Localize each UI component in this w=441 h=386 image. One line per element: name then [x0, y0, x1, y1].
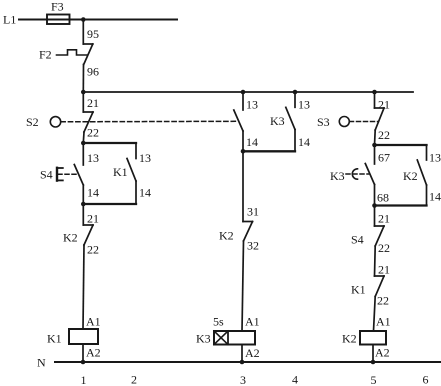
wire: [83, 245, 84, 329]
junction right branch bottom: [372, 203, 377, 208]
svg-text:K1: K1: [47, 332, 62, 346]
F2 actuator linkage: [57, 50, 88, 55]
wire left column top: [82, 20, 84, 45]
svg-text:68: 68: [377, 191, 389, 205]
junction N / K1 coil: [81, 360, 86, 365]
wire: [82, 185, 84, 204]
svg-text:14: 14: [298, 135, 310, 149]
svg-text:K1: K1: [113, 165, 128, 179]
contact S2 NO: [234, 110, 243, 131]
svg-text:S4: S4: [351, 233, 364, 247]
svg-text:A1: A1: [245, 315, 260, 329]
svg-text:F2: F2: [39, 48, 52, 62]
wire: [82, 65, 84, 93]
wire K1 branch right leg top: [135, 143, 137, 159]
wire: [242, 241, 244, 331]
svg-text:K3: K3: [270, 114, 285, 128]
svg-text:K2: K2: [219, 229, 234, 243]
wire: [374, 206, 376, 227]
junction at L1 / left column: [81, 17, 86, 22]
S4 actuator (manual): [40, 168, 78, 182]
contact K1 NO (self hold): [127, 159, 136, 182]
junction parallel branch bottom: [81, 202, 86, 207]
junction N / K3 coil: [240, 360, 245, 365]
svg-text:22: 22: [378, 241, 390, 255]
wire right branch bottom: [375, 204, 427, 206]
svg-text:13: 13: [246, 98, 258, 112]
junction parallel branch top: [81, 141, 86, 146]
svg-text:A2: A2: [245, 346, 260, 360]
contact S2 NC: [83, 112, 93, 132]
svg-text:14: 14: [139, 186, 151, 200]
junction middle branch: [241, 149, 246, 154]
svg-text:22: 22: [87, 243, 99, 257]
wire: [82, 132, 85, 143]
contact K3 NO: [286, 107, 295, 129]
junction top bus / K3 leg: [293, 90, 298, 95]
svg-text:32: 32: [247, 239, 259, 253]
wire: [374, 297, 376, 332]
S3 linkage (dashed): [350, 121, 379, 123]
wire: [242, 131, 244, 151]
wire: [241, 345, 243, 363]
junction N / K2 coil: [371, 360, 376, 365]
wire L1 rail: [19, 19, 177, 21]
junction top bus / middle column: [241, 90, 246, 95]
wire middle column: [242, 151, 244, 221]
pushbutton S2 head: [26, 115, 61, 129]
svg-text:4: 4: [292, 373, 298, 386]
svg-text:22: 22: [378, 128, 390, 142]
svg-text:5s: 5s: [213, 315, 224, 329]
wire branch top: [83, 142, 136, 144]
svg-text:13: 13: [298, 98, 310, 112]
svg-text:14: 14: [87, 186, 99, 200]
svg-text:31: 31: [247, 205, 259, 219]
contact S4 NO: [74, 165, 83, 186]
svg-text:13: 13: [139, 151, 151, 165]
wire right branch top: [375, 144, 427, 146]
svg-text:K2: K2: [63, 231, 78, 245]
coil K2: [342, 331, 386, 346]
svg-text:A1: A1: [86, 315, 101, 329]
contact K3 NO (delayed): [365, 164, 374, 185]
S2 linkage (dashed): [61, 120, 237, 123]
junction top bus: [81, 90, 86, 95]
svg-text:22: 22: [87, 126, 99, 140]
contact K2 NO: [417, 160, 426, 185]
svg-text:1: 1: [81, 373, 87, 386]
coil K1: [47, 329, 98, 346]
wire: [294, 130, 296, 152]
wire N rail: [55, 361, 441, 363]
svg-text:21: 21: [87, 212, 99, 226]
K3 delay actuator: [330, 169, 369, 183]
wire right branch right leg: [426, 145, 428, 160]
contact K2 NC: [243, 222, 253, 242]
svg-text:S2: S2: [26, 115, 39, 129]
svg-text:S3: S3: [317, 115, 330, 129]
svg-text:13: 13: [429, 151, 441, 165]
fuse F3: [47, 0, 70, 24]
svg-text:67: 67: [378, 151, 390, 165]
wire: [82, 204, 84, 225]
svg-text:A2: A2: [375, 346, 390, 360]
pushbutton S3 head: [317, 115, 349, 129]
svg-text:14: 14: [429, 190, 441, 204]
wire: [374, 145, 376, 164]
svg-text:L1: L1: [3, 13, 16, 27]
svg-text:K3: K3: [196, 332, 211, 346]
svg-text:S4: S4: [40, 168, 53, 182]
contact F2 (thermal overload NC): [83, 44, 93, 65]
svg-text:96: 96: [87, 65, 99, 79]
svg-text:21: 21: [378, 263, 390, 277]
wire top bus: [83, 91, 413, 93]
svg-text:95: 95: [87, 27, 99, 41]
wire: [242, 92, 244, 110]
svg-text:A2: A2: [86, 346, 101, 360]
svg-text:22: 22: [377, 294, 389, 308]
svg-text:5: 5: [371, 373, 377, 386]
wire: [82, 143, 84, 165]
wire: [135, 181, 137, 204]
wire: [372, 345, 374, 363]
svg-text:6: 6: [423, 373, 429, 386]
svg-text:14: 14: [246, 135, 258, 149]
svg-text:K2: K2: [342, 332, 357, 346]
contact K1 NC: [375, 276, 385, 297]
wire: [374, 92, 376, 108]
coil K3 (on-delay timer): [196, 331, 255, 346]
junction top bus / right column: [372, 90, 377, 95]
wire branch bottom: [83, 203, 136, 205]
wire: [82, 344, 84, 362]
wire: [374, 130, 377, 145]
wire middle branch join: [243, 150, 295, 152]
svg-text:21: 21: [378, 212, 390, 226]
contact S3 NC: [375, 108, 385, 130]
svg-text:3: 3: [240, 373, 246, 386]
svg-text:K1: K1: [351, 283, 366, 297]
wire: [82, 92, 84, 112]
svg-text:N: N: [37, 356, 46, 370]
svg-text:A1: A1: [376, 315, 391, 329]
svg-text:13: 13: [87, 151, 99, 165]
svg-text:21: 21: [87, 96, 99, 110]
wire: [374, 246, 377, 276]
svg-text:2: 2: [131, 373, 137, 386]
wire: [426, 185, 428, 206]
wire: [374, 185, 376, 206]
contact S4 NC: [375, 226, 385, 246]
contact K2 NC (interlock): [83, 225, 93, 245]
svg-text:K3: K3: [330, 169, 345, 183]
svg-text:F3: F3: [51, 0, 64, 14]
svg-text:K2: K2: [403, 169, 418, 183]
junction right branch top: [372, 143, 377, 148]
wire: [294, 92, 296, 107]
